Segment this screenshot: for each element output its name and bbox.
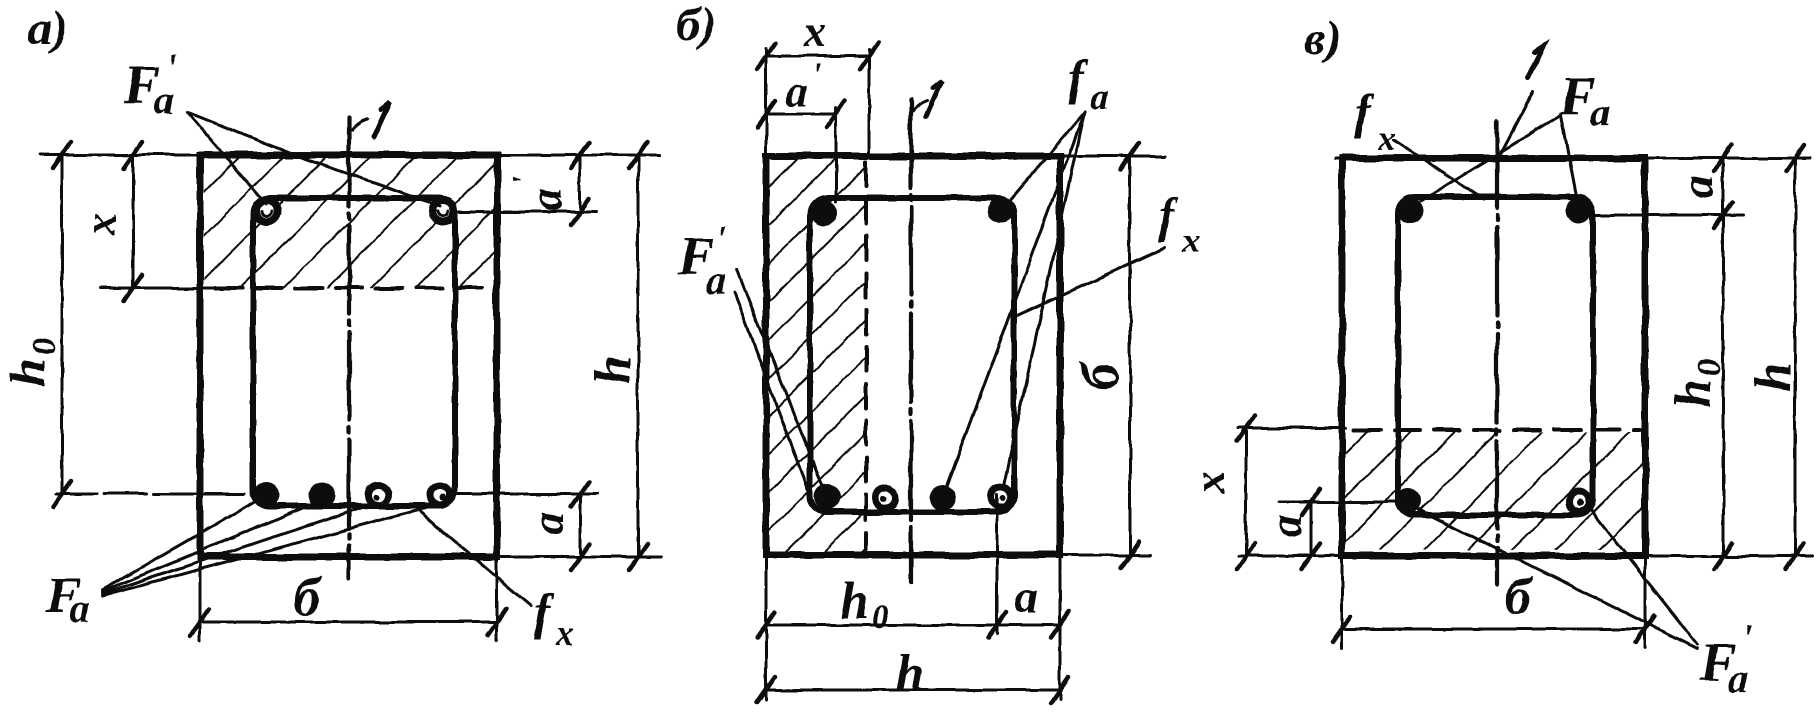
h0 tick bottom [1714, 543, 1732, 569]
leader Fa' to right top bar [187, 112, 440, 206]
b dimension extension right [496, 557, 499, 640]
svg-text:a: a [1090, 75, 1109, 117]
svg-text:': ' [716, 219, 727, 261]
a' tick bottom [571, 199, 589, 225]
b tick right [488, 609, 506, 635]
b tick left [191, 609, 209, 635]
concrete section outline (figure v) [1342, 158, 1645, 556]
h0 dim tick top [53, 142, 71, 168]
a dimension line (right bottom) [579, 494, 582, 557]
leader fx to stirrup top [1394, 140, 1484, 199]
svg-text:в): в) [1304, 12, 1341, 65]
h dimension line (bottom) [766, 689, 1060, 692]
top bar left inner mark [262, 211, 272, 216]
a' tick right [827, 101, 845, 127]
x tick top [1237, 415, 1255, 441]
leader Fa to bar 3 [102, 503, 376, 594]
label 1 [374, 102, 390, 137]
svg-text:a: a [706, 258, 726, 303]
b dimension extension left [199, 557, 202, 640]
x extension line right [868, 50, 871, 158]
svg-text:x: x [803, 7, 826, 56]
x dimension line (left) [132, 155, 135, 288]
svg-text:': ' [506, 176, 543, 185]
x dim tick bottom [124, 275, 142, 301]
a tick top [571, 481, 589, 507]
svg-text:x: x [1185, 471, 1234, 494]
svg-text:x: x [76, 213, 125, 236]
top bar right (solid) [1566, 197, 1592, 223]
bottom bar 1 (solid) [253, 482, 279, 508]
stirrup (figure a) [253, 198, 455, 506]
axis 1 centerline (figure v) [1495, 120, 1499, 585]
h0 dimension line (bottom) [766, 624, 1060, 627]
label 1 (figure v) [1528, 46, 1544, 78]
hatch compression zone (figure v) [1345, 432, 1642, 550]
svg-text:h: h [1745, 363, 1802, 392]
h tick bottom [1786, 543, 1804, 569]
h dimension line (far right) [1794, 158, 1797, 556]
leader Fa' to bottom left bar [1413, 507, 1697, 648]
h tick right [1051, 677, 1069, 703]
top bar right inner mark [438, 211, 448, 216]
a and h0 dimension line (right) [1722, 158, 1725, 556]
x extension line left [1238, 427, 1346, 430]
leader fa to top right bar [1008, 112, 1085, 202]
top edge extension right [1060, 155, 1164, 158]
b dimension extension left [1341, 556, 1344, 648]
h0 dim tick bottom [53, 481, 71, 507]
bottom bar right inner mark [1577, 500, 1584, 507]
leader Fa to bar 1 [102, 498, 262, 590]
bottom bar 3 (solid) [930, 485, 956, 511]
svg-text:x: x [1377, 118, 1396, 158]
bottom bar 4 inner mark [1000, 495, 1006, 501]
top bar right (ring) [432, 200, 454, 222]
bottom edge extension [1238, 555, 1812, 558]
a' tick top [571, 142, 589, 168]
label 1 tick (figure b) [912, 101, 927, 112]
h tick left [757, 677, 775, 703]
a extension line at top bars right [1596, 214, 1743, 217]
h0 tick left [757, 612, 775, 638]
bottom bar 2 inner mark [881, 496, 887, 502]
concrete section outline (figure b) [766, 156, 1060, 555]
svg-text:a: a [786, 67, 808, 116]
svg-text:': ' [1742, 617, 1753, 659]
a' extension down to bar [835, 108, 838, 202]
a tick top [1714, 145, 1732, 171]
top bar left (ring) [256, 200, 278, 222]
x dimension line (left) [1245, 428, 1248, 556]
neutral axis dashed line [216, 286, 496, 290]
svg-text:a: a [520, 188, 571, 211]
h0 extension line at bottom bars [56, 493, 256, 496]
axis 1 centerline (figure b) [909, 100, 913, 582]
h tick top [1786, 145, 1804, 171]
b tick right [1636, 616, 1654, 642]
h0 dimension line (left) [61, 155, 64, 494]
concrete section outline (figure a) [200, 155, 497, 557]
left edge extension down [765, 555, 768, 700]
top bar left (solid) [1398, 198, 1424, 224]
b dimension line (bottom) [200, 621, 497, 624]
label h0 (figure b) [840, 573, 889, 636]
a tick bottom [571, 544, 589, 570]
leader fx to stirrup right leg [1016, 248, 1165, 316]
b dimension line (right) [1129, 156, 1132, 555]
label Fa' (figure v) [1699, 617, 1753, 701]
leader 1 to centerline [1499, 92, 1533, 157]
bottom bar left (solid) [1395, 488, 1421, 514]
svg-text:a: a [1260, 515, 1311, 538]
svg-text:h: h [585, 356, 642, 385]
h0 tick right [988, 612, 1006, 638]
top edge extension right [1335, 157, 1810, 160]
svg-text:h: h [0, 358, 57, 387]
label 1 (figure b) [926, 81, 942, 116]
a dimension line (left) [1310, 502, 1313, 556]
svg-text:б): б) [676, 0, 716, 51]
bottom edge extension line [200, 556, 662, 559]
label a' (figure b) [786, 57, 821, 116]
h dimension line (right) [637, 155, 640, 557]
a extension line at bottom bars right [455, 493, 597, 496]
b tick left [1333, 616, 1351, 642]
a tick top (left) [1302, 489, 1320, 515]
x dimension extension at neutral axis [100, 287, 218, 290]
bottom edge extension right [1060, 554, 1150, 557]
svg-text:a: a [1671, 176, 1722, 199]
label Fa (figure v) [1559, 66, 1610, 135]
svg-text:а): а) [28, 2, 68, 55]
bottom bar 4 (ring) [430, 485, 450, 505]
svg-text:h: h [1665, 379, 1722, 408]
bottom bar 3 inner mark [373, 494, 379, 500]
svg-text:б: б [1070, 360, 1130, 389]
stirrup (figure v) [1398, 197, 1593, 515]
axis 1 centerline [347, 118, 351, 578]
a tick right end [1051, 612, 1069, 638]
bottom bar 4 (ring) [991, 487, 1011, 507]
bottom bar right (ring) [1569, 492, 1589, 512]
neutral axis dashed line (figure v) [1354, 428, 1640, 432]
left edge extension up [765, 48, 768, 156]
svg-text:': ' [812, 57, 821, 94]
b tick bottom [1121, 542, 1139, 568]
leader Fa to top right bar [1561, 115, 1576, 194]
h tick bottom [629, 544, 647, 570]
label h0 (rotated) [0, 338, 63, 387]
label fx (figure b) [1158, 187, 1200, 260]
svg-text:a: a [1590, 90, 1610, 135]
svg-text:a: a [1728, 656, 1748, 701]
label a' (rotated) [506, 176, 571, 211]
b dimension extension right [1644, 556, 1647, 648]
a' dimension line (right top) [579, 155, 582, 212]
svg-text:x: x [555, 613, 574, 653]
leader Fa' to bottom bar 1 [737, 270, 824, 490]
svg-text:x: x [1181, 220, 1200, 260]
svg-text:б: б [294, 567, 323, 627]
x tick right [860, 43, 878, 69]
top corner bar left (solid) [811, 200, 837, 226]
label Fa' (figure b) [677, 219, 727, 303]
svg-text:б: б [1505, 566, 1534, 626]
a extension line at bottom bar left [1279, 501, 1404, 504]
hatch compression zone (figure a) [204, 158, 494, 288]
leader Fa' to stirrup corner [734, 292, 814, 505]
bottom bar 2 (solid) [309, 482, 335, 508]
svg-text:0: 0 [1691, 359, 1728, 376]
bottom bar 2 (ring) [876, 488, 896, 508]
a' tick left [757, 101, 775, 127]
label Fa [45, 567, 90, 631]
bottom bar 3 (ring) [368, 485, 388, 505]
leader Fa' to left top bar [187, 112, 266, 204]
neutral axis dashed line (vertical) [864, 162, 868, 550]
a tick at bars [1714, 202, 1732, 228]
leader Fa' to bottom right bar [1589, 508, 1697, 644]
extension at bar 4 down [996, 495, 999, 634]
svg-text:h: h [896, 645, 925, 702]
bottom bar 4 inner mark [440, 494, 447, 501]
x tick left [757, 43, 775, 69]
svg-text:a: a [70, 586, 90, 631]
label 1 tick [352, 119, 368, 130]
a' dimension line (top) [766, 113, 836, 116]
svg-text:a: a [522, 512, 573, 535]
label fx [534, 583, 574, 653]
svg-text:0: 0 [872, 599, 889, 636]
svg-text:': ' [166, 47, 177, 89]
leader fx to stirrup corner [417, 509, 531, 606]
svg-text:0: 0 [26, 338, 63, 355]
leader Fa to top left bar [1421, 115, 1561, 201]
label fa (figure b) [1068, 49, 1109, 117]
b dimension line (bottom, figure v) [1342, 628, 1645, 631]
b tick top [1121, 143, 1139, 169]
hatch compression zone (figure b) [769, 159, 866, 552]
stirrup (figure b) [810, 198, 1014, 512]
x dimension line (top) [766, 55, 869, 58]
label fx (figure v) [1354, 83, 1396, 158]
x tick bottom [1237, 543, 1255, 569]
a tick bottom (left) [1302, 543, 1320, 569]
right edge extension down [1059, 555, 1062, 700]
top edge extension line [40, 154, 660, 157]
label h0 (rotated, figure v) [1665, 359, 1728, 408]
top corner bar right (solid) [988, 197, 1014, 223]
leader fa to bottom bar 3 [945, 112, 1085, 490]
label Fa' [123, 47, 177, 123]
a' extension line at top bars [455, 211, 597, 214]
x dim tick top [124, 142, 142, 168]
leader fa to bottom bar 4 [1003, 112, 1085, 488]
leader Fa to bar 4 [102, 505, 436, 596]
bottom bar 1 (solid) [814, 484, 840, 510]
svg-text:h: h [840, 573, 869, 630]
h tick top [629, 142, 647, 168]
leader Fa to bar 2 [102, 501, 320, 592]
svg-text:a: a [1015, 571, 1038, 622]
